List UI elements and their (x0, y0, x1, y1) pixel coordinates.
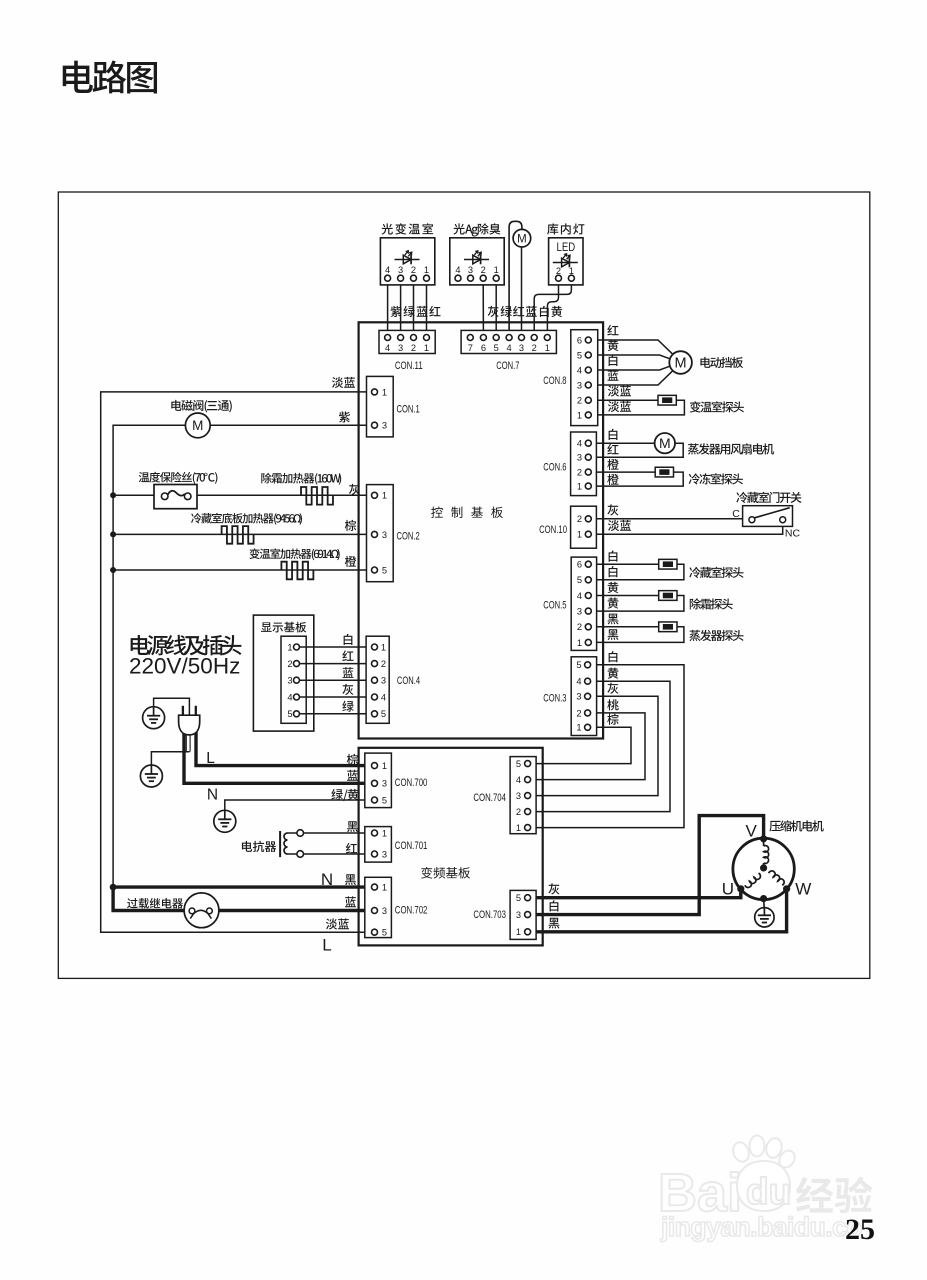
svg-text:CON.3: CON.3 (543, 693, 566, 705)
svg-text:3: 3 (398, 343, 403, 353)
wire box1 pin2 to CON.11 pin2 (413, 278, 415, 337)
svg-text:W: W (795, 880, 811, 899)
svg-text:5: 5 (494, 343, 499, 353)
svg-text:2: 2 (577, 514, 582, 524)
svg-text:M: M (192, 418, 203, 433)
svg-text:4: 4 (577, 591, 582, 601)
wire CON.3 pin5 to CON.704 pin1 (528, 665, 684, 828)
wire color labels CON.10 灰淡蓝 (607, 504, 618, 515)
wire CON.6 pin4 fan motor loop pin3 (588, 443, 683, 457)
svg-text:1: 1 (382, 491, 387, 501)
sensor 变温室探头 symbol (658, 395, 676, 405)
svg-text:V: V (745, 821, 757, 840)
svg-text:4: 4 (287, 692, 292, 702)
connector CON.703 (510, 890, 536, 939)
sensor 冷冻室探头 symbol (655, 467, 673, 477)
outer frame (58, 192, 870, 978)
reactor symbol core bar (279, 831, 281, 857)
svg-text:3: 3 (382, 779, 387, 789)
svg-text:CON.6: CON.6 (543, 462, 566, 474)
svg-text:5: 5 (382, 928, 387, 938)
thick wire CON.703 pin1 to compressor W (528, 889, 787, 932)
photo sensor box2 光Ag除臭 (450, 238, 504, 285)
svg-text:1: 1 (516, 823, 521, 833)
solenoid valve motor circle (185, 413, 210, 438)
thick wire CON.703 pin5 to compressor U (528, 889, 741, 898)
svg-text:2: 2 (381, 659, 386, 669)
svg-text:2: 2 (577, 468, 582, 478)
compressor winding W (769, 871, 784, 885)
wire color labels CON.5 白白黄黄黑黑 (609, 551, 618, 562)
overload relay circle (184, 893, 219, 928)
svg-text:5: 5 (287, 709, 292, 719)
wire CON.8 pin6 to damper motor (588, 340, 673, 354)
title 电路图 (63, 61, 157, 94)
label 蒸发器用风扇电机 (688, 443, 774, 454)
connector CON.3 (571, 657, 596, 736)
svg-text:LED: LED (557, 242, 576, 254)
wire color labels 紫绿蓝红 (391, 306, 402, 317)
connector CON.10 (571, 506, 597, 548)
wire compressor to ground4 (763, 899, 766, 908)
connector CON.704 (510, 757, 536, 834)
svg-text:3: 3 (516, 910, 521, 920)
svg-text:C: C (732, 508, 740, 520)
wire CON.3 pin4 to CON.704 pin2 (528, 681, 670, 811)
thermal fuse box (154, 485, 197, 509)
svg-text:1: 1 (494, 265, 499, 275)
deodorizer motor M top (521, 247, 523, 338)
wire 紫 CON.1 pin3 rail (113, 425, 374, 910)
svg-text:5: 5 (381, 709, 386, 719)
thick wire rail down to relay wire (113, 886, 374, 911)
svg-text:5: 5 (577, 350, 582, 360)
wire box2 pin2 to CON.7 pin6 (482, 278, 484, 337)
solenoid valve 电磁阀(三通) label (171, 400, 231, 413)
svg-text:du: du (746, 1171, 791, 1212)
junction dot rail x=113 y=495.3 (110, 492, 116, 498)
connector CON.2 (367, 485, 394, 582)
connector CON.4 (366, 636, 389, 723)
baidu watermark paw (731, 1140, 752, 1164)
svg-text:1: 1 (382, 883, 387, 893)
svg-text:M: M (517, 233, 527, 245)
svg-text:1: 1 (577, 530, 582, 540)
display board inner pin box (281, 636, 306, 723)
compressor winding V (764, 846, 769, 864)
wire color labels 灰绿红蓝白黄 (488, 306, 499, 317)
svg-text:1: 1 (382, 761, 387, 771)
svg-text:1: 1 (516, 927, 521, 937)
svg-text:3: 3 (382, 530, 387, 540)
variable room heater element symbol (281, 562, 313, 580)
compressor terminal dots U V W center bottom (760, 835, 767, 842)
ground symbol 1 (143, 707, 165, 729)
svg-text:L: L (322, 936, 331, 955)
svg-text:1: 1 (424, 265, 429, 275)
door switch 冷藏室门开关 label (736, 492, 801, 503)
svg-text:220V/50Hz: 220V/50Hz (129, 654, 240, 679)
heater wire 1 (defrost) y=495.3 (113, 494, 374, 496)
thick wire CON.703 pin3 to compressor V (528, 816, 764, 915)
labels 灰白黑 CON.703 (548, 883, 559, 894)
label 棕 heater wire2 (345, 520, 356, 531)
svg-text:6: 6 (577, 560, 582, 570)
plug earth lead double line (185, 734, 187, 752)
svg-text:U: U (722, 880, 734, 899)
svg-text:2: 2 (481, 265, 486, 275)
connector CON.11 (379, 330, 435, 353)
wire CON.5 pin4 sensor loop pin3 (除霜探头) (588, 596, 684, 612)
wire CON.3 pin2 to CON.704 pin4 (528, 713, 645, 780)
svg-text:2: 2 (411, 265, 416, 275)
wire CON.3 pin3 to CON.704 pin3 (528, 696, 658, 795)
reactor 电抗器 label (242, 841, 276, 852)
wire CON.8 pin3 to damper motor (588, 371, 673, 385)
wire box2 pin1 to CON.7 pin5 (495, 278, 497, 337)
power cord label 电源线及插头 (131, 635, 242, 656)
wire box1 pin1 to CON.11 pin1 (426, 278, 428, 337)
svg-text:1: 1 (382, 828, 387, 838)
photo sensor box1 光变温室 (380, 238, 434, 285)
svg-text:1: 1 (576, 723, 581, 733)
svg-text:4: 4 (507, 343, 512, 353)
baidu watermark 经验 (796, 1176, 873, 1213)
overload relay 过载继电器 label (127, 898, 183, 909)
svg-text:2: 2 (287, 659, 292, 669)
door switch box (743, 506, 793, 527)
junction dot rail x=113 y=534.4 (110, 531, 116, 537)
svg-text:3: 3 (576, 692, 581, 702)
svg-text:3: 3 (468, 265, 473, 275)
control board 控制基板 outline (359, 322, 603, 738)
svg-text:3: 3 (519, 343, 524, 353)
wire CON.10 pin2 to door switch C (588, 518, 749, 520)
inverter board label 变频基板 (421, 867, 470, 879)
svg-text:CON.11: CON.11 (395, 360, 423, 372)
svg-text:4: 4 (385, 343, 390, 353)
wire CON.7 pin4 loop to motor top (509, 221, 522, 334)
cabinet heater element symbol (222, 526, 254, 544)
connector CON.7 (461, 330, 556, 353)
wire box1 pin4 to CON.11 pin4 (387, 278, 389, 337)
svg-text:3: 3 (398, 265, 403, 275)
wire color labels CON.3 白黄灰桃棕 (609, 651, 618, 662)
motor M circle (deodorizer) (513, 229, 531, 247)
svg-text:3: 3 (382, 421, 387, 431)
svg-text:CON.7: CON.7 (496, 360, 519, 372)
wire CON.8 pin2 sensor loop pin1 (588, 400, 684, 415)
inverter board 变频基板 outline (359, 748, 543, 946)
svg-text:3: 3 (516, 791, 521, 801)
thick wire L plug to CON.700 pin1 (196, 730, 375, 766)
connector CON.700 (365, 753, 392, 808)
svg-text:jingyan.baidu.co: jingyan.baidu.co (660, 1212, 862, 1242)
svg-text:5: 5 (516, 893, 521, 903)
damper motor 电动挡板 circle (669, 351, 692, 374)
svg-text:NC: NC (785, 528, 801, 540)
svg-text:L: L (206, 750, 215, 767)
svg-text:M: M (659, 435, 671, 451)
svg-text:4: 4 (577, 439, 582, 449)
svg-text:CON.702: CON.702 (395, 905, 428, 917)
wire box1 pin3 to CON.11 pin3 (400, 278, 402, 337)
wire color labels CON.6 白红橙橙 (609, 429, 618, 440)
svg-text:CON.4: CON.4 (397, 675, 420, 687)
reactor coil and terminals (288, 833, 375, 854)
svg-text:5: 5 (516, 759, 521, 769)
svg-text:CON.1: CON.1 (397, 404, 420, 416)
labels 棕 蓝 绿/黄 CON.700 (347, 754, 358, 765)
label 淡蓝 CON.1 pin1 (332, 377, 355, 388)
damper motor label 电动挡板 (700, 357, 743, 368)
svg-text:4: 4 (576, 677, 581, 687)
label 冷冻室探头 (689, 473, 743, 484)
display board label (261, 622, 306, 633)
svg-text:5: 5 (577, 575, 582, 585)
interior lamp box 库内灯 LED (549, 238, 583, 285)
svg-text:1: 1 (577, 410, 582, 420)
svg-text:N: N (207, 787, 218, 804)
svg-text:1: 1 (545, 343, 550, 353)
ground symbol 3 (214, 810, 236, 832)
svg-text:CON.701: CON.701 (395, 840, 428, 852)
svg-text:3: 3 (382, 906, 387, 916)
svg-text:4: 4 (385, 265, 390, 275)
svg-text:N: N (321, 870, 333, 889)
wire CON.700 pin5 to ground3 (225, 800, 375, 810)
svg-text:CON.5: CON.5 (543, 600, 566, 612)
wire CON.5 pin6 sensor loop pin5 (冷藏室探头) (588, 564, 684, 580)
control board label 控 制 基 板 (431, 506, 503, 518)
thick wire N rail to CON.702 pin1 (113, 885, 374, 888)
wire CON.3 pin1 to CON.704 pin5 (528, 727, 631, 763)
wire LED pin2 to CON.7 pin1 (547, 281, 558, 335)
door switch contacts and lever (749, 517, 755, 523)
heater 变温室加热器(6914Ω) label (250, 548, 340, 560)
junction dot rail x=113 y=570 (110, 567, 116, 573)
wire LED pin1 to CON.7 pin2 (534, 281, 571, 335)
svg-text:2: 2 (577, 396, 582, 406)
connector CON.8 (571, 330, 598, 426)
connector CON.702 (365, 877, 392, 937)
defrost heater element symbol (301, 487, 333, 505)
wire CON.5 pin2 sensor loop pin1 (蒸发器探头) (588, 627, 684, 643)
svg-text:1: 1 (382, 387, 387, 397)
svg-text:6: 6 (481, 343, 486, 353)
compressor winding U (745, 873, 760, 887)
svg-text:5: 5 (576, 660, 581, 670)
wire CON.10 pin1 to door switch NC (588, 523, 782, 534)
svg-text:6: 6 (577, 335, 582, 345)
thick wire N plug to CON.700 pin3 (184, 730, 375, 783)
display board 显示基板 outer box (253, 615, 313, 731)
connector CON.6 (571, 432, 597, 496)
wire color labels CON.8 红黄白蓝淡蓝淡蓝 (607, 325, 618, 336)
connector CON.701 (365, 827, 392, 863)
svg-text:4: 4 (455, 265, 460, 275)
wire CON.6 pin2 sensor loop pin1 (588, 472, 683, 486)
svg-text:CON.2: CON.2 (397, 531, 420, 543)
svg-text:25: 25 (845, 1213, 875, 1246)
svg-text:CON.10: CON.10 (539, 524, 567, 536)
ground symbol 4 (compressor) (755, 908, 774, 927)
labels 黑 红 CON.701 (347, 821, 358, 832)
wires display board to CON.4 (297, 646, 375, 648)
wire CON.8 pin4 to damper motor (588, 366, 670, 370)
svg-text:3: 3 (381, 676, 386, 686)
label 紫 CON.1 pin3 (339, 411, 350, 422)
svg-text:1: 1 (381, 642, 386, 652)
evaporator fan motor circle (655, 433, 675, 453)
heater wire 3 (variable room) y=570 (113, 569, 374, 571)
svg-text:2: 2 (516, 807, 521, 817)
svg-text:CON.703: CON.703 (473, 909, 506, 921)
svg-text:3: 3 (577, 453, 582, 463)
svg-text:1: 1 (287, 642, 292, 652)
connector CON.5 (571, 557, 596, 650)
svg-text:7: 7 (468, 343, 473, 353)
svg-text:4: 4 (577, 365, 582, 375)
wire ground1 to plug earth (154, 698, 190, 715)
svg-text:2: 2 (411, 343, 416, 353)
svg-text:3: 3 (287, 676, 292, 686)
label 蓝 CON.702 pin3 (345, 896, 356, 907)
svg-text:CON.700: CON.700 (395, 777, 428, 789)
compressor motor 压缩机电机 circle (733, 838, 794, 899)
wire CON.8 pin5 to damper motor (588, 355, 670, 359)
defrost heater 除霜加热器(160W) label (261, 473, 341, 485)
plug body (179, 715, 200, 735)
svg-text:CON.704: CON.704 (473, 792, 506, 804)
svg-text:1: 1 (577, 482, 582, 492)
svg-text:5: 5 (382, 795, 387, 805)
svg-text:3: 3 (577, 380, 582, 390)
plug prongs (182, 706, 184, 715)
wire ground2 to plug earth lead (151, 752, 189, 765)
svg-text:4: 4 (381, 692, 386, 702)
compressor label 压缩机电机 (769, 820, 823, 831)
svg-text:3: 3 (577, 607, 582, 617)
svg-text:4: 4 (516, 775, 521, 785)
svg-text:3: 3 (382, 849, 387, 859)
junction dot rail x=113 y=887.1 (110, 884, 117, 891)
svg-text:2: 2 (576, 708, 581, 718)
svg-text:M: M (675, 356, 687, 372)
svg-text:5: 5 (382, 565, 387, 575)
label 灰 heater wire1 (349, 484, 360, 495)
wire color labels 白红蓝灰绿 CON.4 (344, 634, 353, 645)
connector CON.1 (367, 376, 394, 437)
svg-text:1: 1 (424, 343, 429, 353)
label 变温室探头 (690, 401, 744, 412)
wire 淡蓝 CON.1 pin1 rail (101, 392, 375, 932)
label 橙 heater wire3 (345, 556, 356, 567)
svg-text:CON.8: CON.8 (543, 375, 566, 387)
svg-text:2: 2 (577, 622, 582, 632)
ground symbol 2 (140, 765, 162, 787)
svg-text:1: 1 (577, 638, 582, 648)
heater wire 2 (cabinet bottom) y=534.4 (113, 533, 374, 535)
heater 冷藏室底板加热器(9456Ω) label (191, 513, 302, 525)
thermal fuse 温度保险丝(70℃) label (139, 472, 218, 484)
svg-text:2: 2 (532, 343, 537, 353)
wire 淡蓝 to CON.702 pin5 label (326, 918, 349, 929)
